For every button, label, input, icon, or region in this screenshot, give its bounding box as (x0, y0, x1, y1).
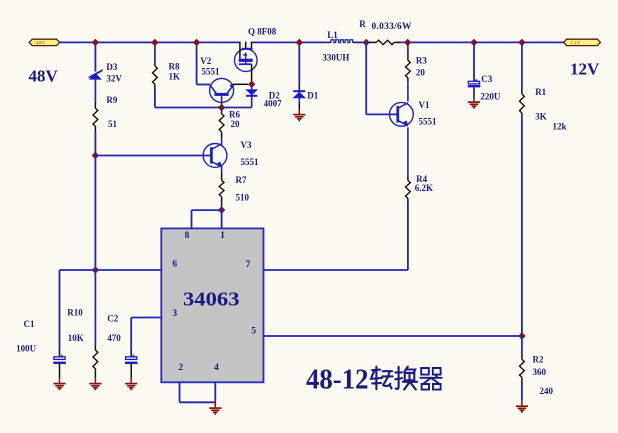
ic U1 34063 body (161, 228, 263, 382)
svg-text:510: 510 (236, 193, 250, 203)
capacitor C2 (125, 354, 138, 363)
resistor R3 (406, 42, 411, 83)
svg-text:4: 4 (214, 363, 219, 373)
wire V3 base node down (94, 156, 96, 271)
node rail junction x196.6 (193, 39, 200, 46)
transistor V2 (210, 78, 235, 102)
wire C2 to ground (130, 364, 132, 383)
ground below D1 (293, 115, 305, 121)
svg-text:3K: 3K (535, 112, 547, 122)
wire D2 cathode (251, 96, 253, 107)
wire C3 branch (473, 42, 475, 81)
wire R4 to pin7 (264, 202, 408, 270)
wire R8 bottom (155, 90, 252, 108)
node rail junction x154.9 (151, 39, 158, 46)
label 12V (570, 60, 600, 79)
ground below C2 (125, 384, 137, 390)
svg-text:R1: R1 (535, 87, 546, 97)
svg-text:R7: R7 (236, 175, 247, 185)
svg-text:34063: 34063 (183, 289, 240, 311)
svg-text:C2: C2 (107, 313, 118, 323)
ground below pin4 (209, 408, 221, 414)
resistor R1 (520, 42, 525, 118)
svg-text:5: 5 (251, 327, 256, 337)
node rail junction x95.4 (92, 39, 99, 46)
wire V2 emitter to drain node (233, 83, 248, 85)
node V3 base tee (92, 152, 99, 159)
svg-text:6: 6 (172, 260, 177, 270)
capacitor C1 (53, 354, 66, 363)
wire R10 to ground (94, 376, 96, 384)
wire pin3 (131, 317, 161, 319)
node pin5 junction (518, 332, 525, 339)
svg-text:10K: 10K (68, 333, 84, 343)
svg-text:D1: D1 (307, 90, 318, 100)
ic pin number 6 (172, 260, 177, 270)
svg-text:12V: 12V (570, 60, 600, 79)
mosfet Q1 8F08 (235, 42, 258, 72)
svg-text:1: 1 (220, 231, 225, 241)
svg-text:48V: 48V (29, 67, 59, 86)
wire junction stub (366, 41, 371, 43)
svg-text:100U: 100U (16, 343, 36, 353)
svg-text:20: 20 (231, 119, 241, 129)
wire R3 to V1 collector (407, 83, 409, 101)
wire rail R-right (398, 41, 564, 43)
wire pin8 bridge (192, 206, 222, 228)
title 48-12 converter (306, 364, 442, 396)
ic pin number 2 (178, 363, 183, 373)
svg-text:48-12: 48-12 (306, 364, 369, 396)
wire V2 collector (221, 94, 223, 107)
node R1 rail junction (518, 39, 525, 46)
svg-text:R: R (359, 19, 366, 29)
wire V2 base branch (197, 42, 210, 84)
ic pin number 4 (214, 363, 219, 373)
ground below R10 (89, 384, 101, 390)
ic pin number 3 (172, 309, 177, 319)
wire D3 node to V3 base node (94, 132, 96, 156)
svg-text:Q 8F08: Q 8F08 (248, 27, 277, 37)
svg-text:L1: L1 (327, 30, 338, 40)
svg-text:6.2K: 6.2K (415, 183, 433, 193)
svg-text:5551: 5551 (241, 157, 260, 167)
terminal 48V input (29, 39, 59, 46)
svg-text:1K: 1K (169, 72, 181, 82)
transistor V3 (203, 144, 227, 168)
svg-text:D3: D3 (106, 62, 117, 72)
ground below R2 (516, 406, 528, 412)
svg-text:32V: 32V (106, 74, 122, 84)
svg-text:R9: R9 (106, 95, 117, 105)
svg-text:3: 3 (172, 309, 177, 319)
ic pin number 5 (251, 327, 256, 337)
node R-R3 junction (404, 39, 411, 46)
svg-text:360: 360 (533, 367, 547, 377)
svg-text:240: 240 (540, 386, 554, 396)
wire mosfet drain (251, 64, 253, 84)
ground below C1 (53, 384, 65, 390)
wire V3 emitter (221, 165, 223, 172)
svg-text:8: 8 (185, 231, 190, 241)
svg-text:12V: 12V (571, 41, 581, 46)
node pin6 tee (92, 266, 99, 273)
svg-text:R2: R2 (533, 355, 544, 365)
transistor V1 (390, 102, 414, 126)
wire C1 to ground (59, 364, 61, 383)
svg-text:R3: R3 (416, 55, 427, 65)
svg-text:5551: 5551 (202, 67, 221, 77)
wire 48V branch upper (94, 42, 96, 71)
wire pin2 (180, 382, 216, 402)
svg-text:R10: R10 (67, 307, 83, 317)
wire C3 to ground (473, 87, 475, 102)
svg-text:470: 470 (107, 333, 121, 343)
node V2 collector junction (218, 104, 225, 111)
wire pin6 (95, 269, 161, 271)
resistor R4 (406, 176, 411, 202)
svg-text:330UH: 330UH (322, 53, 349, 63)
svg-text:20: 20 (416, 68, 426, 78)
svg-text:C3: C3 (481, 74, 492, 84)
diode D2 (246, 84, 257, 96)
svg-text:12k: 12k (553, 122, 567, 132)
svg-text:2: 2 (178, 363, 183, 373)
wire top rail left (60, 41, 240, 43)
svg-text:V1: V1 (419, 100, 430, 110)
ic pin number 8 (185, 231, 190, 241)
wire V1 base column (366, 42, 398, 114)
svg-text:220U: 220U (480, 91, 501, 101)
wire R1 to pin5 node (521, 118, 523, 336)
resistor R7 (219, 173, 224, 207)
ic pin number 7 (246, 260, 251, 270)
resistor R9 (93, 79, 98, 131)
resistor R2 (520, 336, 525, 382)
svg-text:48V: 48V (36, 41, 46, 46)
capacitor C1 branch (59, 270, 61, 357)
resistor R 0.033 (371, 40, 400, 44)
node C3 junction (470, 39, 477, 46)
diode D1 (293, 91, 305, 98)
ic pin number 1 (220, 231, 225, 241)
resistor R10 (93, 270, 98, 376)
wire R2 to ground (521, 382, 523, 406)
node R7 bottom junction (218, 206, 225, 213)
svg-text:51: 51 (108, 119, 118, 129)
wire top rail mid (252, 41, 327, 43)
capacitor C2 branch (130, 318, 132, 357)
svg-text:C1: C1 (24, 319, 35, 329)
ground below C3 (468, 102, 480, 108)
svg-text:R8: R8 (169, 62, 180, 72)
svg-text:5551: 5551 (419, 117, 438, 127)
wire pin4 (214, 382, 216, 408)
node L1-R junction (363, 39, 370, 46)
node D1 rail junction (296, 39, 303, 46)
wire D1 branch (298, 42, 300, 91)
svg-text:0.033/6W: 0.033/6W (372, 22, 412, 32)
wire V1 emitter to R4 (407, 127, 409, 176)
node mosfet drain junction (248, 81, 255, 88)
svg-text:V2: V2 (200, 56, 211, 66)
label 48V (29, 67, 59, 86)
wire V3 base (95, 155, 211, 157)
svg-text:4007: 4007 (264, 98, 283, 108)
svg-text:7: 7 (246, 260, 251, 270)
resistor R8 (152, 42, 157, 89)
capacitor C3 (468, 79, 481, 87)
resistor R6 (219, 108, 224, 146)
wire rail L1-R seg (356, 41, 372, 43)
wire pin6 to C1 (60, 269, 96, 271)
svg-text:V3: V3 (241, 140, 252, 150)
zener D3 (89, 70, 103, 80)
terminal 12V output (564, 39, 601, 46)
wire D1 to ground (298, 98, 300, 115)
wire pin5 (264, 335, 522, 337)
inductor L1 (327, 40, 355, 43)
